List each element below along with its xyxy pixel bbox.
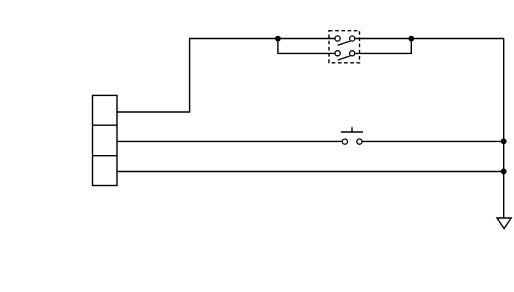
pushbutton S2 bbox=[341, 127, 363, 144]
switch S1 pole 2 bbox=[335, 51, 355, 60]
wire node A to switch pole1 left contact bbox=[278, 38, 335, 40]
ground bbox=[497, 218, 511, 229]
wire node A down to switch pole2 left contact bbox=[278, 39, 335, 54]
wire node B to top-right corner bbox=[411, 38, 503, 40]
wire pin1 to node A bbox=[117, 39, 278, 113]
wire pushbutton right contact to node C bbox=[363, 140, 504, 142]
wire switch pole1 right contact to node B bbox=[355, 38, 411, 40]
switch S1 pole 1 bbox=[335, 36, 355, 45]
node C (middle right junction) bbox=[501, 138, 507, 144]
switch S1 dashed enclosure bbox=[329, 31, 360, 63]
wire right rail vertical bbox=[503, 39, 505, 219]
wire switch pole2 right contact up to node B bbox=[355, 39, 411, 54]
node D (lower right junction) bbox=[501, 169, 507, 175]
node A (left junction) bbox=[275, 36, 281, 42]
wire pin3 to node D bbox=[117, 171, 504, 173]
connector J1 bbox=[93, 95, 118, 185]
wire pin2 to pushbutton left contact bbox=[117, 140, 342, 142]
node B (right junction) bbox=[408, 36, 414, 42]
